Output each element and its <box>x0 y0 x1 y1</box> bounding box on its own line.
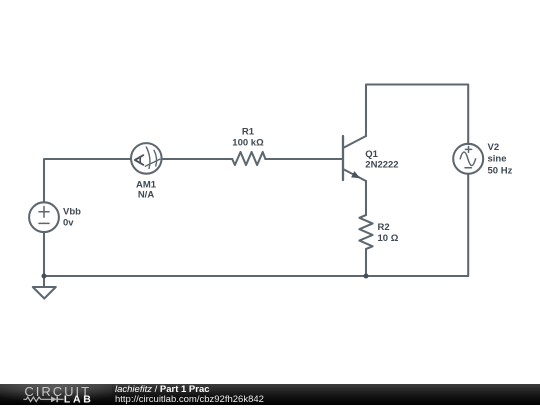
wire: Vbb top vertical <box>44 159 131 203</box>
footer bar <box>0 384 540 405</box>
svg-text:R1: R1 <box>242 126 255 137</box>
svg-text:R2: R2 <box>378 222 390 233</box>
ground <box>33 276 56 299</box>
wire: bottom rail <box>44 275 468 277</box>
svg-text:2N2222: 2N2222 <box>365 160 398 171</box>
wire: emitter down to R2 <box>365 181 367 215</box>
svg-text:50 Hz: 50 Hz <box>488 165 513 176</box>
svg-text:0v: 0v <box>63 218 74 229</box>
node: junction R2/rail <box>364 274 369 279</box>
wire: R2 to bottom rail <box>365 249 367 276</box>
node: junction Vbb/ground/rail <box>42 274 47 279</box>
wire: collector up and across to V2 <box>366 85 468 144</box>
ammeter AM1 <box>131 143 162 174</box>
voltage source Vbb <box>29 202 59 276</box>
wire: R1 to Q1 base <box>265 158 342 160</box>
transistor Q1 <box>343 136 366 181</box>
svg-text:Q1: Q1 <box>365 149 378 160</box>
svg-text:sine: sine <box>488 154 507 165</box>
source V2 <box>453 144 483 174</box>
logo mark resistor+diode <box>23 396 63 402</box>
resistor R2 <box>359 215 372 249</box>
wire: ammeter to R1 <box>162 158 233 160</box>
svg-text:Vbb: Vbb <box>63 207 81 218</box>
svg-text:N/A: N/A <box>138 190 155 201</box>
svg-text:V2: V2 <box>488 142 500 153</box>
svg-text:100 kΩ: 100 kΩ <box>232 137 264 148</box>
svg-text:10 Ω: 10 Ω <box>378 233 399 244</box>
wire: V2 bottom vertical <box>467 174 469 276</box>
svg-text:LAB: LAB <box>64 394 94 405</box>
resistor R1 <box>232 152 265 165</box>
